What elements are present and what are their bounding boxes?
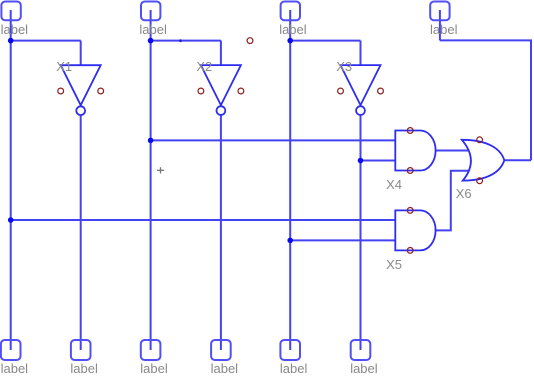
output pin bottom 3 bbox=[141, 340, 161, 360]
junction wire1 bbox=[148, 138, 154, 144]
input pin 2 bbox=[141, 2, 160, 21]
junction pin1 bbox=[8, 38, 14, 44]
input pin 1 bbox=[1, 2, 20, 21]
svg-text:label: label bbox=[1, 22, 29, 37]
node X4 top bbox=[407, 128, 413, 134]
wire X5 output bbox=[435, 171, 469, 231]
wire X2 input drop bbox=[220, 41, 222, 66]
wire X1 output vertical bbox=[80, 115, 82, 350]
wire X1 input drop bbox=[80, 41, 82, 66]
svg-text:label: label bbox=[350, 361, 378, 376]
node X1 left bbox=[58, 88, 64, 94]
wire X5 top input bbox=[11, 219, 396, 221]
not gate X1 bbox=[61, 65, 101, 115]
and gate X4 bbox=[395, 131, 435, 171]
wire X2 output vertical bbox=[220, 115, 222, 350]
not gate X2 bbox=[201, 65, 241, 115]
node X5 bottom bbox=[407, 248, 413, 254]
output pin bottom 4 bbox=[211, 340, 231, 360]
wire X1 input horizontal bbox=[11, 40, 81, 42]
svg-text:label: label bbox=[139, 22, 167, 37]
junction pin2 bbox=[148, 38, 154, 44]
output pin bottom 6 bbox=[351, 340, 371, 360]
wire X2 input horizontal bbox=[151, 40, 221, 42]
not gate X3 bbox=[341, 65, 381, 115]
or gate X6 bbox=[462, 140, 505, 181]
wire X3 input horizontal bbox=[290, 40, 360, 42]
wire X4 top input bbox=[151, 139, 396, 141]
junction pin3 bbox=[287, 38, 293, 44]
wire output feedback right bbox=[440, 40, 531, 160]
svg-text:label: label bbox=[430, 22, 458, 37]
wire X6 output bbox=[504, 159, 531, 161]
wire pin1 vertical bbox=[10, 10, 12, 350]
wire X3 input drop bbox=[360, 41, 362, 66]
node X4 bottom bbox=[407, 168, 413, 174]
node X5 top bbox=[407, 208, 413, 214]
svg-text:label: label bbox=[279, 22, 307, 37]
output pin bottom 2 bbox=[71, 340, 91, 360]
output pin 4 top right bbox=[430, 2, 449, 21]
svg-text:X6: X6 bbox=[456, 186, 472, 201]
svg-text:X1: X1 bbox=[56, 59, 72, 74]
output pin bottom 5 bbox=[280, 340, 300, 360]
junction wire2 bbox=[358, 158, 364, 164]
and gate X5 bbox=[395, 210, 435, 250]
svg-text:X2: X2 bbox=[196, 59, 212, 74]
wire pin3 vertical bbox=[289, 10, 291, 350]
node X1 right bbox=[98, 88, 104, 94]
svg-text:label: label bbox=[211, 361, 239, 376]
wire X4 bottom input bbox=[361, 160, 396, 162]
node X6 bottom bbox=[477, 178, 483, 184]
svg-text:label: label bbox=[70, 361, 98, 376]
output pin bottom 1 bbox=[1, 340, 21, 360]
cursor cross bbox=[157, 167, 164, 173]
junction wire3 bbox=[8, 217, 14, 223]
svg-text:X4: X4 bbox=[386, 177, 402, 192]
node X3 right bbox=[378, 88, 384, 94]
wire X3 output vertical bbox=[360, 115, 362, 350]
node X3 left bbox=[338, 88, 344, 94]
svg-text:X3: X3 bbox=[336, 59, 352, 74]
node X2 left bbox=[198, 88, 204, 94]
svg-text:label: label bbox=[140, 361, 168, 376]
node X6 top bbox=[477, 137, 483, 143]
junction wire4 bbox=[287, 238, 293, 244]
wire pin2 vertical bbox=[150, 10, 152, 350]
node unconnected bbox=[247, 38, 253, 44]
node on wire bbox=[179, 39, 182, 42]
wire X4 output bbox=[436, 150, 469, 152]
input pin 3 bbox=[281, 2, 300, 21]
wire X5 bottom input bbox=[290, 239, 395, 241]
wire pin4 stub bbox=[439, 10, 441, 40]
svg-text:label: label bbox=[280, 361, 308, 376]
svg-text:label: label bbox=[1, 361, 29, 376]
node X2 right bbox=[238, 88, 244, 94]
svg-text:X5: X5 bbox=[386, 257, 402, 272]
